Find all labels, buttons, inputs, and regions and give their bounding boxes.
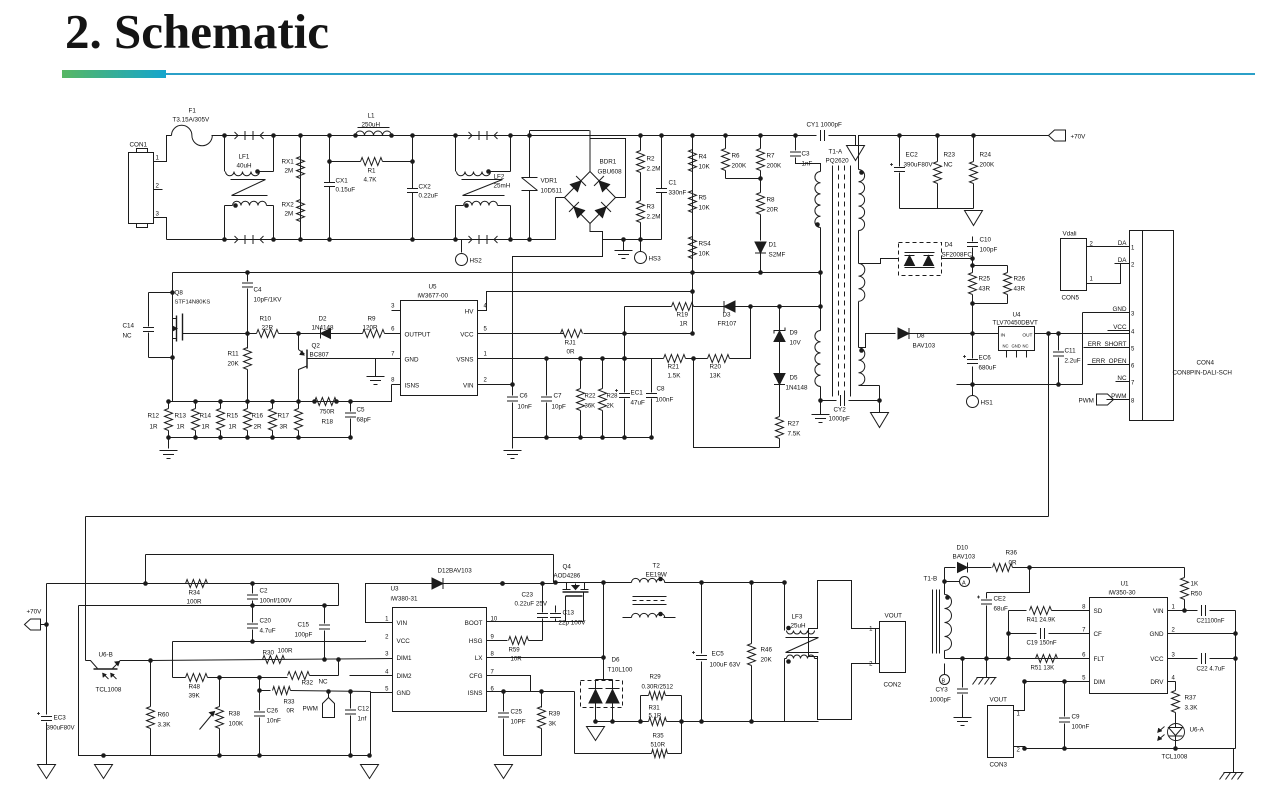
svg-text:L1: L1 (368, 113, 376, 120)
svg-text:7: 7 (1082, 628, 1086, 634)
svg-text:R46: R46 (761, 647, 773, 654)
svg-text:R9: R9 (368, 316, 377, 323)
svg-text:10V: 10V (790, 340, 802, 347)
svg-text:36K: 36K (585, 404, 596, 410)
svg-text:0.22uF: 0.22uF (419, 193, 439, 200)
svg-text:1R: 1R (229, 424, 238, 431)
svg-text:10K: 10K (699, 164, 711, 171)
svg-text:C20: C20 (260, 618, 272, 625)
svg-text:2M: 2M (285, 168, 294, 175)
svg-text:D10: D10 (957, 545, 969, 552)
svg-text:R11: R11 (228, 351, 240, 358)
svg-text:6: 6 (391, 327, 395, 333)
svg-text:RJ1: RJ1 (565, 340, 577, 347)
svg-text:1.5K: 1.5K (668, 373, 682, 380)
svg-text:1nf: 1nf (358, 716, 367, 723)
svg-text:CE2: CE2 (994, 596, 1007, 603)
svg-text:GND: GND (1012, 344, 1021, 349)
svg-text:BAV103: BAV103 (953, 554, 976, 561)
svg-text:1R: 1R (680, 321, 689, 328)
svg-text:U5: U5 (429, 284, 438, 291)
svg-text:Q8: Q8 (175, 290, 184, 297)
svg-text:DRV: DRV (1150, 679, 1164, 686)
svg-text:TCL1008: TCL1008 (96, 687, 122, 694)
svg-text:1000pF: 1000pF (829, 416, 851, 423)
svg-text:100R: 100R (278, 648, 294, 655)
svg-text:120R: 120R (363, 325, 379, 332)
svg-text:VOUT: VOUT (885, 613, 903, 620)
svg-text:LF2: LF2 (494, 174, 505, 181)
svg-text:200K: 200K (767, 163, 783, 170)
svg-text:HSG: HSG (469, 638, 483, 645)
svg-text:ISNS: ISNS (468, 690, 483, 697)
svg-text:4: 4 (1131, 330, 1135, 336)
svg-text:8: 8 (491, 652, 495, 658)
svg-text:5.1R: 5.1R (649, 713, 662, 720)
svg-text:C8: C8 (657, 386, 666, 393)
svg-text:R50: R50 (1191, 591, 1203, 598)
svg-text:Q2: Q2 (312, 343, 321, 350)
svg-text:CY2: CY2 (834, 407, 847, 414)
svg-text:2: 2 (1131, 263, 1135, 269)
svg-text:7.5K: 7.5K (788, 431, 802, 438)
svg-text:CX2: CX2 (419, 184, 432, 191)
svg-text:R59: R59 (509, 647, 521, 654)
svg-text:43R: 43R (979, 286, 991, 293)
svg-text:C25: C25 (511, 709, 523, 716)
svg-text:DIM1: DIM1 (397, 655, 413, 662)
svg-text:VDR1: VDR1 (541, 178, 558, 185)
svg-text:NC: NC (1023, 344, 1029, 349)
svg-text:C2: C2 (260, 588, 269, 595)
svg-text:VIN: VIN (397, 620, 408, 627)
svg-text:C5: C5 (357, 407, 366, 414)
svg-text:T1-B: T1-B (924, 576, 938, 583)
svg-text:VCC: VCC (460, 332, 474, 339)
svg-text:R23: R23 (944, 152, 956, 159)
svg-text:5: 5 (385, 687, 389, 693)
svg-text:EC6: EC6 (979, 355, 992, 362)
svg-text:CY3: CY3 (936, 687, 949, 694)
svg-text:BOOT: BOOT (465, 620, 483, 627)
svg-text:10nF: 10nF (518, 404, 533, 411)
svg-text:CON1: CON1 (130, 142, 148, 149)
svg-text:RS4: RS4 (699, 241, 712, 248)
svg-text:TLV70450DBVT: TLV70450DBVT (993, 320, 1039, 327)
svg-text:BAV103: BAV103 (913, 343, 936, 350)
svg-text:3: 3 (1172, 653, 1176, 659)
svg-text:1R: 1R (177, 424, 186, 431)
svg-text:20K: 20K (761, 657, 773, 664)
svg-text:NC: NC (944, 162, 954, 169)
svg-text:T3.15A/305V: T3.15A/305V (173, 117, 211, 124)
svg-text:1: 1 (1090, 277, 1094, 283)
svg-text:CFG: CFG (469, 673, 482, 680)
svg-text:R51 13K: R51 13K (1031, 665, 1055, 672)
svg-text:U6-B: U6-B (99, 652, 113, 659)
svg-text:0.22uF 25V: 0.22uF 25V (515, 601, 548, 608)
svg-text:D4: D4 (945, 242, 954, 249)
svg-text:EC5: EC5 (712, 651, 725, 658)
svg-text:VIN: VIN (1153, 608, 1164, 615)
svg-text:390uF80V: 390uF80V (904, 162, 934, 169)
svg-text:EC1: EC1 (631, 390, 644, 397)
svg-text:1: 1 (1131, 246, 1135, 252)
svg-text:20R: 20R (767, 207, 779, 214)
svg-text:20K: 20K (228, 361, 240, 368)
svg-text:680uF: 680uF (979, 365, 997, 372)
svg-text:SD: SD (1094, 608, 1103, 615)
svg-text:R22: R22 (585, 394, 597, 400)
svg-text:D8: D8 (917, 333, 926, 340)
svg-text:2R: 2R (254, 424, 263, 431)
svg-text:1K: 1K (1191, 581, 1200, 588)
svg-text:D2: D2 (319, 316, 328, 323)
svg-text:R31: R31 (649, 705, 661, 712)
svg-text:NC: NC (123, 333, 133, 340)
svg-text:T10L100: T10L100 (608, 667, 633, 674)
svg-text:100nF: 100nF (1072, 724, 1090, 731)
svg-text:22p 100V: 22p 100V (559, 620, 587, 627)
svg-text:C3: C3 (802, 151, 811, 158)
svg-text:0R: 0R (1009, 560, 1018, 567)
svg-text:10PF: 10PF (511, 719, 526, 726)
svg-text:2: 2 (1172, 628, 1176, 634)
svg-text:D1: D1 (769, 242, 778, 249)
svg-text:1: 1 (869, 627, 873, 633)
svg-text:GBU608: GBU608 (598, 169, 623, 176)
svg-text:1: 1 (385, 617, 389, 623)
svg-text:8: 8 (1082, 605, 1086, 611)
svg-text:0.15uF: 0.15uF (336, 187, 356, 194)
svg-text:R17: R17 (278, 413, 290, 420)
svg-text:CX1: CX1 (336, 178, 349, 185)
svg-text:T2: T2 (653, 563, 661, 570)
svg-text:2: 2 (385, 635, 389, 641)
svg-text:1R: 1R (202, 424, 211, 431)
svg-text:R36: R36 (1006, 550, 1018, 557)
svg-text:VSNS: VSNS (456, 357, 473, 364)
svg-text:C9: C9 (1072, 714, 1081, 721)
svg-text:40uH: 40uH (237, 163, 253, 170)
svg-text:CY1 1000pF: CY1 1000pF (807, 122, 843, 129)
svg-text:+70V: +70V (27, 609, 43, 616)
svg-text:C14: C14 (123, 323, 135, 330)
svg-text:R4: R4 (699, 154, 708, 161)
svg-text:R20: R20 (710, 364, 722, 371)
svg-text:R27: R27 (788, 421, 800, 428)
svg-text:R35: R35 (653, 733, 665, 740)
svg-text:7: 7 (1131, 381, 1135, 387)
svg-text:200K: 200K (732, 163, 748, 170)
svg-text:Vdali: Vdali (1063, 231, 1077, 238)
svg-text:PQ2620: PQ2620 (826, 158, 850, 165)
svg-text:DIM: DIM (1094, 679, 1106, 686)
svg-text:8: 8 (391, 378, 395, 384)
svg-text:10K: 10K (699, 205, 711, 212)
svg-text:R33: R33 (284, 700, 296, 706)
svg-text:750R: 750R (320, 409, 336, 416)
svg-text:1nF: 1nF (802, 161, 813, 168)
svg-text:2.2M: 2.2M (647, 166, 661, 173)
svg-text:0R: 0R (567, 349, 576, 356)
svg-text:VCC: VCC (1150, 656, 1164, 663)
svg-text:3: 3 (1131, 312, 1135, 318)
svg-text:STF14N80KS: STF14N80KS (175, 300, 211, 306)
svg-text:43R: 43R (1014, 286, 1026, 293)
svg-text:iW3677-00: iW3677-00 (418, 293, 449, 300)
svg-text:1: 1 (1172, 605, 1176, 611)
svg-text:HS2: HS2 (470, 258, 483, 265)
svg-text:CON4: CON4 (1197, 360, 1215, 367)
svg-text:T1-A: T1-A (829, 149, 843, 156)
svg-text:250uH: 250uH (362, 122, 381, 129)
svg-text:CON2: CON2 (884, 682, 902, 689)
svg-text:DA: DA (1118, 240, 1128, 247)
svg-text:100uF 63V: 100uF 63V (710, 662, 742, 669)
svg-text:2K: 2K (607, 404, 614, 410)
svg-text:C10: C10 (980, 237, 992, 244)
svg-text:330nF: 330nF (669, 190, 687, 197)
svg-text:R8: R8 (767, 197, 776, 204)
svg-text:3.3K: 3.3K (1185, 705, 1199, 712)
svg-text:ERR_OPEN: ERR_OPEN (1092, 358, 1127, 365)
svg-text:A: A (962, 581, 966, 587)
svg-text:1N4148: 1N4148 (312, 325, 335, 332)
svg-text:DA: DA (1118, 257, 1128, 264)
svg-text:1N4148: 1N4148 (786, 385, 809, 392)
svg-text:+70V: +70V (1071, 134, 1087, 141)
svg-text:FR107: FR107 (718, 321, 737, 328)
svg-text:GND: GND (1150, 631, 1164, 638)
svg-text:R60: R60 (158, 712, 170, 719)
svg-text:2: 2 (484, 378, 488, 384)
svg-text:4: 4 (385, 670, 389, 676)
svg-text:R15: R15 (227, 413, 239, 420)
svg-text:R13: R13 (175, 413, 187, 420)
svg-text:R26: R26 (1014, 276, 1026, 283)
svg-text:47uF: 47uF (631, 400, 646, 407)
svg-text:F1: F1 (189, 108, 197, 115)
svg-text:R30: R30 (263, 650, 275, 657)
svg-text:OUTPUT: OUTPUT (405, 332, 431, 339)
svg-text:100pF: 100pF (295, 632, 313, 639)
svg-text:C23: C23 (522, 592, 534, 599)
svg-text:CON8PIN-DALI-SCH: CON8PIN-DALI-SCH (1173, 370, 1233, 377)
svg-text:C12: C12 (358, 706, 370, 713)
svg-text:R37: R37 (1185, 695, 1197, 702)
svg-text:OUT: OUT (1022, 333, 1032, 339)
svg-text:5: 5 (1082, 676, 1086, 682)
svg-text:VIN: VIN (463, 383, 474, 390)
svg-text:R1: R1 (368, 168, 377, 175)
svg-text:3R: 3R (280, 424, 289, 431)
svg-text:R10: R10 (260, 316, 272, 323)
svg-text:EC3: EC3 (54, 715, 67, 722)
svg-text:R32: R32 (302, 680, 314, 687)
svg-text:R3: R3 (647, 204, 656, 211)
svg-text:510R: 510R (651, 742, 666, 749)
svg-text:D5: D5 (790, 375, 799, 382)
svg-text:1R: 1R (150, 424, 159, 431)
svg-text:7: 7 (391, 352, 395, 358)
svg-text:2M: 2M (285, 211, 294, 218)
svg-text:GND: GND (1113, 306, 1127, 313)
svg-text:S2MF: S2MF (769, 252, 786, 259)
svg-text:2: 2 (1017, 748, 1021, 754)
svg-text:R19: R19 (677, 312, 689, 319)
svg-text:R7: R7 (767, 153, 776, 160)
svg-text:2.2uF: 2.2uF (1065, 358, 1081, 365)
svg-text:RX1: RX1 (282, 159, 295, 166)
svg-text:R18: R18 (322, 419, 334, 426)
svg-text:C22 4.7uF: C22 4.7uF (1197, 666, 1226, 673)
svg-text:3: 3 (391, 304, 395, 310)
svg-text:25mH: 25mH (494, 183, 511, 190)
svg-text:R21: R21 (668, 364, 680, 371)
svg-text:FLT: FLT (1094, 656, 1105, 663)
svg-text:1: 1 (1017, 712, 1021, 718)
svg-text:3.3K: 3.3K (158, 722, 172, 729)
svg-text:10nF: 10nF (267, 718, 282, 725)
svg-text:0.30R/2512: 0.30R/2512 (642, 684, 674, 691)
svg-text:R24: R24 (980, 152, 992, 159)
svg-text:SF2008FC: SF2008FC (942, 252, 973, 259)
svg-text:R38: R38 (229, 711, 241, 718)
svg-text:C15: C15 (298, 622, 310, 629)
svg-text:1000pF: 1000pF (930, 697, 952, 704)
svg-text:100nF: 100nF (656, 397, 674, 404)
svg-text:R6: R6 (732, 153, 741, 160)
svg-text:10pF/1KV: 10pF/1KV (254, 297, 283, 304)
svg-text:ERR_SHORT: ERR_SHORT (1088, 341, 1127, 348)
svg-text:R39: R39 (549, 711, 561, 718)
svg-text:PWM: PWM (303, 706, 318, 713)
svg-text:200K: 200K (980, 162, 996, 169)
svg-text:C1: C1 (669, 180, 678, 187)
svg-text:VOUT: VOUT (990, 697, 1008, 704)
svg-text:D9: D9 (790, 330, 799, 337)
svg-text:EE19W: EE19W (646, 572, 667, 579)
svg-text:R41 24.9K: R41 24.9K (1027, 617, 1056, 624)
svg-text:PWM: PWM (1079, 398, 1094, 405)
svg-text:39K: 39K (189, 693, 201, 700)
svg-text:22R: 22R (262, 325, 274, 332)
svg-text:U1: U1 (1121, 581, 1130, 588)
svg-text:R28: R28 (607, 394, 619, 400)
svg-text:2: 2 (156, 183, 160, 190)
svg-text:4.7K: 4.7K (364, 177, 378, 184)
svg-text:25uH: 25uH (791, 623, 807, 630)
svg-text:VCC: VCC (397, 638, 411, 645)
svg-text:13K: 13K (710, 373, 722, 380)
svg-text:GND: GND (397, 690, 411, 697)
svg-text:4: 4 (1172, 676, 1176, 682)
svg-text:NC: NC (1117, 375, 1127, 382)
svg-text:CON3: CON3 (990, 762, 1008, 769)
svg-text:AOD4286: AOD4286 (554, 573, 581, 580)
svg-text:R25: R25 (979, 276, 991, 283)
svg-text:10D511: 10D511 (541, 188, 563, 195)
svg-text:C19 150nF: C19 150nF (1027, 640, 1057, 647)
svg-text:CF: CF (1094, 631, 1103, 638)
svg-text:100R: 100R (187, 599, 203, 606)
svg-text:10pF: 10pF (552, 404, 567, 411)
svg-text:D12BAV103: D12BAV103 (438, 568, 473, 575)
svg-text:100K: 100K (229, 721, 245, 728)
svg-text:BDR1: BDR1 (600, 159, 617, 166)
svg-text:6: 6 (1082, 653, 1086, 659)
svg-text:R29: R29 (650, 674, 662, 681)
svg-text:HS1: HS1 (981, 400, 994, 407)
svg-text:R34: R34 (189, 590, 201, 597)
svg-text:U6-A: U6-A (1190, 727, 1205, 734)
svg-text:HS3: HS3 (649, 256, 662, 263)
svg-text:R14: R14 (200, 413, 212, 420)
svg-text:D6: D6 (612, 657, 621, 664)
svg-text:1: 1 (484, 352, 488, 358)
svg-text:390uF80V: 390uF80V (47, 725, 76, 732)
svg-text:5: 5 (484, 327, 488, 333)
svg-text:LX: LX (475, 655, 484, 662)
svg-text:iW380-31: iW380-31 (391, 596, 418, 603)
svg-text:Q4: Q4 (563, 564, 572, 571)
svg-text:0R: 0R (287, 709, 295, 715)
svg-text:3K: 3K (549, 721, 558, 728)
svg-text:RX2: RX2 (282, 202, 295, 209)
svg-text:NC: NC (1003, 344, 1009, 349)
svg-text:U3: U3 (391, 586, 400, 593)
svg-text:U4: U4 (1013, 312, 1022, 319)
svg-text:3: 3 (156, 211, 160, 218)
svg-text:LF3: LF3 (792, 614, 803, 621)
svg-text:LF1: LF1 (239, 154, 250, 161)
svg-text:1: 1 (156, 155, 160, 162)
svg-text:DIM2: DIM2 (397, 673, 413, 680)
svg-text:68uF: 68uF (994, 606, 1009, 613)
svg-text:R2: R2 (647, 156, 656, 163)
svg-text:C4: C4 (254, 287, 263, 294)
svg-text:C7: C7 (554, 393, 563, 400)
svg-text:10R: 10R (511, 656, 523, 663)
svg-text:CON5: CON5 (1062, 295, 1080, 302)
svg-text:2.2M: 2.2M (647, 214, 661, 221)
svg-text:ISNS: ISNS (405, 383, 420, 390)
svg-text:6: 6 (1131, 364, 1135, 370)
svg-text:4.7uF: 4.7uF (260, 628, 276, 635)
svg-text:C13: C13 (563, 610, 575, 617)
svg-text:2: 2 (869, 662, 873, 668)
svg-text:8: 8 (1131, 399, 1135, 405)
svg-text:68pF: 68pF (357, 417, 372, 424)
svg-text:IN: IN (1001, 333, 1006, 339)
svg-text:10K: 10K (699, 251, 711, 258)
svg-text:EC2: EC2 (906, 152, 919, 159)
svg-text:9: 9 (491, 635, 495, 641)
svg-text:3: 3 (385, 652, 389, 658)
svg-text:BC807: BC807 (310, 352, 330, 359)
svg-text:C11: C11 (1065, 348, 1077, 355)
svg-text:C21100nF: C21100nF (1197, 618, 1225, 625)
svg-text:R5: R5 (699, 195, 708, 202)
svg-text:HV: HV (465, 309, 475, 316)
svg-text:C6: C6 (520, 393, 529, 400)
svg-text:5: 5 (1131, 347, 1135, 353)
svg-text:TCL1008: TCL1008 (1162, 754, 1188, 761)
svg-text:D3: D3 (723, 312, 732, 319)
svg-text:R16: R16 (252, 413, 264, 420)
svg-text:iW350-30: iW350-30 (1109, 590, 1136, 597)
